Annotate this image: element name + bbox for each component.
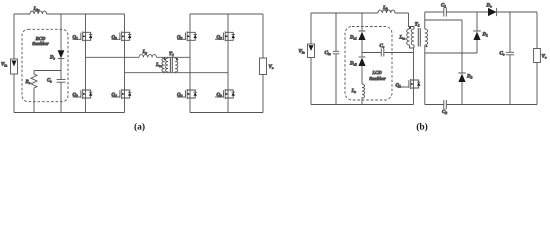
wire input to transformer	[409, 13, 415, 29]
svg-text:Q8: Q8	[217, 92, 223, 98]
transistor Q6	[177, 87, 197, 101]
svg-text:Q5: Q5	[177, 34, 183, 40]
wire leg D	[227, 43, 229, 87]
inductor Ls	[139, 55, 156, 58]
transistor Q7	[227, 14, 229, 30]
source Vin	[13, 14, 15, 113]
svg-text:Lb: Lb	[382, 5, 388, 11]
diode D1	[473, 12, 481, 31]
capacitor C1	[444, 8, 447, 17]
svg-text:Rs: Rs	[26, 79, 31, 85]
svg-text:RCD: RCD	[36, 36, 46, 42]
diode D2	[458, 20, 466, 73]
wire bottom rail b primary	[311, 104, 414, 106]
wire bottom rail right bridge	[190, 112, 263, 114]
capacitor Co	[506, 12, 514, 105]
svg-text:Q2: Q2	[73, 92, 79, 98]
svg-text:Do: Do	[486, 3, 493, 9]
svg-text:C2: C2	[442, 109, 447, 115]
svg-text:Cs: Cs	[47, 78, 52, 84]
svg-text:Co: Co	[500, 51, 505, 57]
svg-text:Ds1: Ds1	[349, 35, 357, 41]
svg-text:Q7: Q7	[217, 34, 223, 40]
wire output top	[425, 11, 537, 13]
load Vo	[262, 14, 264, 113]
svg-text:D1: D1	[482, 32, 489, 38]
wire primary bottom to Q1	[410, 45, 415, 77]
transistor Q3	[124, 14, 126, 30]
source Vin b	[310, 13, 312, 105]
wire top rail b	[311, 12, 409, 14]
resistor Rs	[31, 71, 37, 113]
svg-text:Vin: Vin	[299, 49, 305, 55]
wire mid top	[86, 56, 191, 58]
wire bottom rail b secondary	[425, 104, 537, 106]
diode Ds2	[359, 56, 366, 58]
wire snubber node	[34, 70, 61, 72]
wire secondary bottom	[424, 45, 426, 105]
capacitor Cs	[57, 71, 66, 113]
wire leg B	[124, 43, 126, 87]
svg-text:Cin: Cin	[325, 50, 331, 56]
svg-text:Ds: Ds	[49, 55, 56, 61]
svg-text:Snubber: Snubber	[32, 41, 49, 47]
svg-text:Q1: Q1	[73, 34, 79, 40]
svg-text:Cs: Cs	[380, 43, 385, 49]
wire top rail right bridge	[190, 13, 263, 15]
capacitor Cin	[333, 13, 339, 105]
capacitor C2	[444, 100, 447, 109]
inductor Lin	[30, 11, 46, 14]
svg-text:Q1: Q1	[396, 83, 402, 89]
wire mid bottom	[125, 72, 229, 74]
transistor Q2	[73, 87, 93, 101]
svg-text:Ds2: Ds2	[349, 61, 357, 67]
wire node Y	[425, 52, 477, 54]
wire upper link	[425, 19, 462, 21]
svg-text:Lin: Lin	[33, 6, 40, 12]
transistor Q8	[215, 87, 235, 101]
svg-text:T1: T1	[415, 22, 420, 28]
transistor Q5	[189, 14, 191, 30]
RCD snubber box	[22, 29, 68, 101]
svg-text:(b): (b)	[416, 123, 428, 133]
svg-text:C1: C1	[441, 3, 446, 9]
wire leg A	[85, 43, 87, 87]
svg-text:Q3: Q3	[112, 34, 118, 40]
transistor Q4	[112, 87, 132, 101]
svg-text:LCD: LCD	[371, 70, 382, 76]
wire top rail left bridge	[14, 13, 125, 15]
svg-text:Vo: Vo	[542, 54, 547, 60]
load Vo b	[536, 12, 538, 105]
svg-text:Snubber: Snubber	[369, 76, 386, 82]
wire secondary top	[424, 12, 426, 29]
transistor Q1	[85, 14, 87, 30]
diode Do	[488, 8, 497, 16]
svg-text:T1: T1	[169, 51, 174, 57]
svg-text:Vin: Vin	[1, 62, 7, 68]
LCD snubber box	[345, 27, 392, 101]
diode Ds1	[359, 13, 366, 31]
diode Ds	[60, 14, 62, 50]
svg-text:Vo: Vo	[269, 64, 274, 70]
svg-text:Q4: Q4	[112, 92, 118, 98]
svg-text:(a): (a)	[134, 123, 145, 133]
wire bottom rail left bridge	[14, 112, 125, 114]
wire leg C	[189, 43, 191, 87]
svg-text:Lm: Lm	[399, 35, 406, 41]
svg-text:Lm: Lm	[155, 62, 162, 68]
inductor Ls b	[362, 84, 365, 105]
svg-text:Ls: Ls	[142, 49, 148, 55]
svg-text:Q6: Q6	[177, 92, 183, 98]
svg-text:Ls: Ls	[351, 88, 357, 94]
svg-text:D2: D2	[466, 74, 473, 80]
capacitor Cs b	[362, 49, 414, 57]
transistor Q1 b	[401, 77, 421, 91]
inductor Lb	[378, 10, 395, 13]
